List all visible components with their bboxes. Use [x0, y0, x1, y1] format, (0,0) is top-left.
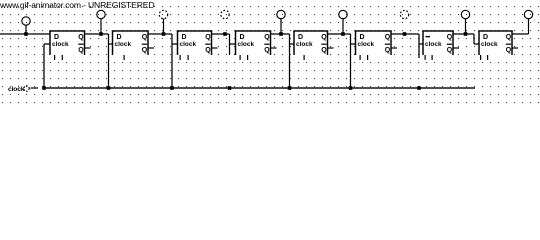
- svg-text:Q: Q: [142, 34, 148, 41]
- svg-text:Q: Q: [264, 34, 270, 41]
- svg-text:Q: Q: [142, 47, 148, 54]
- svg-text:clock: clock: [115, 41, 132, 48]
- svg-text:D: D: [360, 34, 365, 41]
- svg-text:Q: Q: [385, 47, 391, 54]
- svg-text:Q: Q: [447, 34, 453, 41]
- svg-text:Q: Q: [385, 34, 391, 41]
- svg-text:Q: Q: [321, 34, 327, 41]
- svg-text:Q: Q: [205, 34, 211, 41]
- svg-text:Q: Q: [205, 47, 211, 54]
- svg-text:Q: Q: [78, 47, 84, 54]
- svg-text:clock: clock: [238, 41, 255, 48]
- svg-text:D: D: [483, 34, 488, 41]
- svg-text:Q: Q: [78, 34, 84, 41]
- svg-text:Q: Q: [506, 34, 512, 41]
- svg-text:clock: clock: [52, 41, 69, 48]
- svg-text:clock: clock: [425, 41, 442, 48]
- svg-text:clock: clock: [180, 41, 197, 48]
- svg-text:D: D: [117, 34, 122, 41]
- svg-text:clock: clock: [296, 41, 313, 48]
- svg-text:clock: clock: [481, 41, 498, 48]
- svg-text:D: D: [240, 34, 245, 41]
- svg-text:D: D: [182, 34, 187, 41]
- svg-text:D: D: [298, 34, 303, 41]
- svg-text:clock: clock: [358, 41, 375, 48]
- svg-text:D: D: [54, 34, 59, 41]
- svg-text:Q: Q: [506, 47, 512, 54]
- svg-text:Q: Q: [321, 47, 327, 54]
- svg-text:www.gif-animator.com - UNREGIS: www.gif-animator.com - UNREGISTERED: [0, 0, 154, 10]
- svg-text:clock: clock: [8, 86, 25, 93]
- svg-text:Q: Q: [447, 47, 453, 54]
- svg-text:Q: Q: [264, 47, 270, 54]
